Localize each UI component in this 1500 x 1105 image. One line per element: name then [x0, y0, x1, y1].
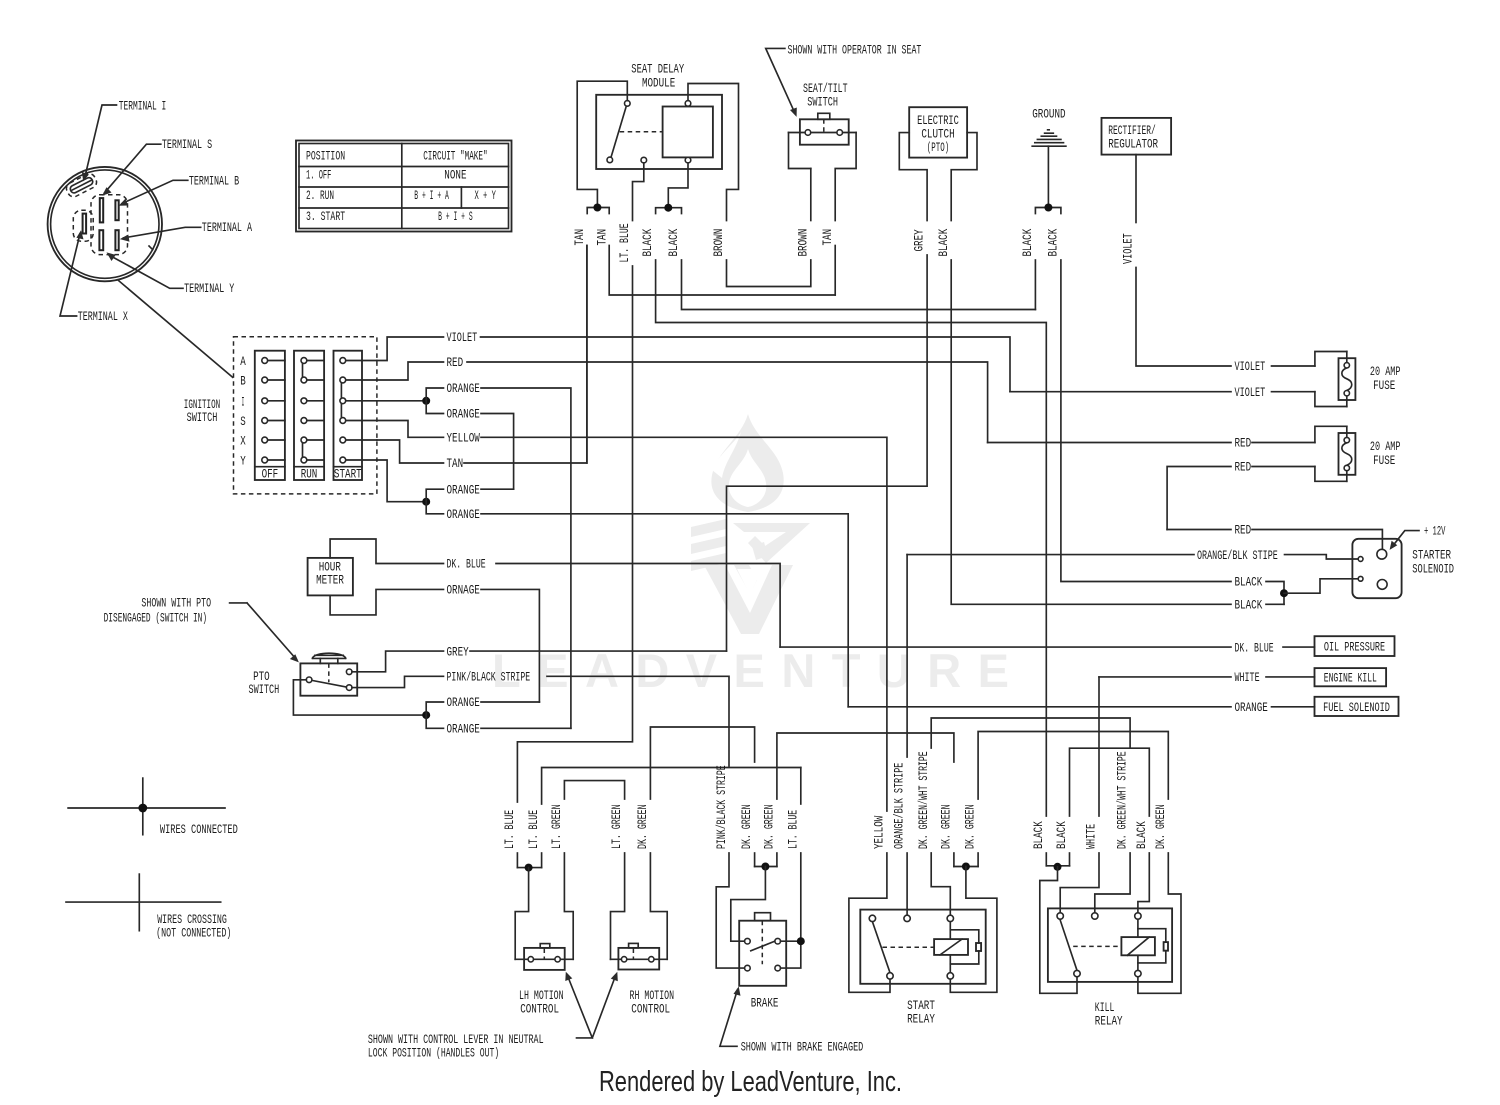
RH terminal right: [649, 957, 654, 962]
PTO button stem: [320, 658, 338, 663]
leader from connector to ignition switch box: [119, 281, 233, 378]
start relay terminal bottom-left: [887, 973, 893, 979]
svg-text:REGULATOR: REGULATOR: [1108, 137, 1158, 152]
start relay resistor loop: [950, 930, 979, 964]
wire LT. BLUE 2 upper segment to brake link: [542, 768, 801, 805]
svg-text:DK. BLUE: DK. BLUE: [447, 557, 486, 572]
module terminal bottom switch: [607, 157, 613, 163]
pin A: [115, 230, 118, 250]
svg-text:RUN: RUN: [301, 467, 318, 482]
junction dot brake LT. BLUE: [797, 937, 805, 945]
clutch left tab: [899, 133, 927, 221]
svg-text:ORNAGE: ORNAGE: [447, 583, 480, 598]
svg-text:SWITCH: SWITCH: [187, 410, 218, 425]
wire B to RED row: [377, 362, 444, 380]
wire VIOLET from bus to fuse bottom: [1010, 391, 1315, 393]
wire DK. GREEN/WHT STRIPE into relay: [931, 853, 950, 915]
wire ORANGE/BLK STIPE row: [907, 555, 1358, 559]
svg-text:GROUND: GROUND: [1032, 106, 1065, 121]
svg-text:RED: RED: [447, 355, 464, 370]
wire A to VIOLET row: [377, 337, 444, 361]
svg-text:VIOLET: VIOLET: [1235, 359, 1266, 374]
svg-text:B: B: [240, 374, 246, 389]
table row line 3: [299, 207, 509, 209]
wire VIOLET to fuse top: [1272, 365, 1315, 367]
svg-text:TERMINAL I: TERMINAL I: [119, 98, 167, 113]
brake dashed actuator: [761, 921, 763, 965]
brake switch body: [739, 921, 786, 986]
wire RED bus to right: [467, 362, 988, 443]
wire module LT. BLUE feed: [633, 163, 644, 221]
wire junction to solenoid: [1284, 579, 1358, 593]
svg-text:METER: METER: [316, 572, 344, 587]
svg-text:START: START: [334, 467, 362, 482]
wire BLACK 2 to ground bus: [682, 260, 1036, 310]
wire BLACK to junction: [1266, 603, 1284, 605]
start relay DK. GREEN pair bracket: [954, 866, 978, 868]
junction dot PTO orange pair: [422, 711, 430, 719]
wire TAN 1 down to TAN row: [586, 246, 588, 464]
ground stem: [1047, 146, 1049, 207]
RH right bracket to DK. GREEN: [650, 853, 667, 959]
junction dot brake DK. GREEN pair: [761, 863, 769, 871]
wire BLACK clutch to solenoid row: [951, 260, 1231, 604]
RH plunger: [629, 943, 639, 948]
start relay switch arm: [872, 922, 890, 973]
START column contact circles: [340, 358, 346, 364]
svg-text:LT. BLUE: LT. BLUE: [502, 810, 517, 849]
svg-text:TERMINAL B: TERMINAL B: [189, 174, 239, 189]
START column box: [334, 351, 363, 480]
PTO switch arm: [312, 680, 347, 687]
svg-text:DK. GREEN/WHT STRIPE: DK. GREEN/WHT STRIPE: [1115, 751, 1130, 849]
brake switch arm: [751, 941, 775, 951]
leader to PTO switch: [230, 603, 297, 660]
svg-text:BLACK: BLACK: [1235, 598, 1263, 613]
svg-text:BLACK: BLACK: [640, 229, 655, 257]
START connect bar B-I-S: [340, 382, 342, 420]
svg-text:GREY: GREY: [912, 229, 927, 251]
svg-text:VIOLET: VIOLET: [1235, 385, 1266, 400]
seat/tilt terminal left: [805, 130, 811, 136]
svg-text:WHITE: WHITE: [1235, 670, 1260, 685]
starter solenoid body: [1352, 539, 1401, 598]
svg-text:ENGINE KILL: ENGINE KILL: [1324, 671, 1377, 686]
svg-text:BLACK: BLACK: [1046, 229, 1061, 257]
svg-text:RED: RED: [1235, 460, 1252, 475]
wire DK. GREEN 2 lower segment: [754, 853, 756, 867]
pin B: [115, 200, 118, 220]
LH right bracket to LT. GREEN: [564, 853, 573, 959]
wire module BROWN feed: [688, 84, 739, 221]
svg-text:1. OFF: 1. OFF: [306, 168, 331, 183]
wire WHITE row: [1099, 676, 1315, 678]
svg-text:VIOLET: VIOLET: [447, 330, 478, 345]
row I contact line: [265, 400, 377, 402]
svg-text:DK. GREEN: DK. GREEN: [762, 804, 777, 849]
wire RED row to solenoid: [1167, 530, 1382, 550]
svg-text:20 AMP: 20 AMP: [1370, 364, 1401, 379]
module terminal coil bottom: [685, 157, 691, 163]
svg-text:GREY: GREY: [447, 644, 469, 659]
fuse 1 holder bracket: [1315, 352, 1347, 407]
wire LT. BLUE down to LH riser: [517, 266, 632, 802]
table inner border: [299, 144, 509, 229]
svg-text:PINK/BLACK STRIPE: PINK/BLACK STRIPE: [714, 765, 729, 849]
svg-text:SOLENOID: SOLENOID: [1412, 561, 1454, 576]
wire TAN 3 down to cross link: [834, 246, 836, 296]
svg-text:BLACK: BLACK: [1020, 229, 1035, 257]
wire LT. BLUE 3 upper segment: [800, 768, 802, 805]
wire BLACK 2 lower segment: [1069, 853, 1071, 866]
fuse 2 body: [1339, 433, 1356, 475]
hour meter box: [308, 558, 353, 596]
kill relay terminal bottom-left: [1074, 970, 1080, 976]
RUN connect bar A-B: [302, 362, 304, 379]
wire TAN row to seat module riser: [464, 246, 587, 464]
svg-text:VIOLET: VIOLET: [1121, 233, 1136, 264]
solenoid big terminal top: [1377, 549, 1387, 559]
wire junction down to ORANGE: [426, 502, 443, 514]
LH plunger: [540, 944, 550, 948]
svg-text:TERMINAL A: TERMINAL A: [202, 220, 252, 235]
svg-text:20 AMP: 20 AMP: [1370, 439, 1401, 454]
junction dot Y row: [422, 498, 430, 506]
wire PTO top right to GREY row: [352, 651, 444, 672]
LH dashed actuator: [543, 949, 545, 959]
table row line 2: [299, 186, 509, 188]
junction dot I row: [422, 397, 430, 405]
svg-text:SHOWN WITH BRAKE ENGAGED: SHOWN WITH BRAKE ENGAGED: [741, 1040, 864, 1055]
start relay terminal top-left: [869, 915, 875, 921]
notch on inner circle: [149, 246, 153, 250]
svg-text:TAN: TAN: [820, 229, 835, 246]
wire TAN 2 down to cross link: [609, 246, 835, 296]
leader to brake: [720, 990, 738, 1047]
table outer border: [296, 141, 512, 232]
wire DK. GREEN into outer bracket right: [1138, 853, 1181, 993]
PTO terminal top right: [346, 669, 352, 675]
clutch right tab: [951, 133, 977, 221]
wire WHITE into relay: [1060, 853, 1099, 913]
svg-text:DISENGAGED (SWITCH IN): DISENGAGED (SWITCH IN): [104, 611, 208, 626]
svg-text:SHOWN WITH OPERATOR IN SEAT: SHOWN WITH OPERATOR IN SEAT: [788, 43, 922, 58]
RUN connect bar X-Y: [302, 442, 304, 459]
wire BROWN 2 up to seat/tilt bracket: [810, 169, 812, 221]
wires connected symbol: [68, 807, 225, 809]
TAN pair bracket: [587, 208, 609, 214]
svg-text:DK. GREEN: DK. GREEN: [939, 804, 954, 849]
RUN column label line: [294, 466, 324, 468]
electric clutch box: [909, 107, 967, 157]
wire ORANGE to fuel solenoid riser: [481, 514, 848, 707]
key slot terminal I: [64, 172, 98, 199]
svg-text:CONTROL: CONTROL: [631, 1001, 670, 1016]
svg-text:BLACK: BLACK: [1134, 821, 1149, 849]
wire hour meter bottom to ORNAGE row: [330, 589, 443, 615]
svg-text:BLACK: BLACK: [1054, 821, 1069, 849]
kill relay BLACK pair bracket: [1046, 865, 1069, 867]
module terminal lt blue: [641, 157, 647, 163]
start relay coil vertical: [949, 922, 951, 973]
RH switch body: [618, 948, 659, 970]
svg-text:B + I + A: B + I + A: [414, 188, 449, 203]
fuel solenoid box: [1315, 697, 1399, 716]
row X contact line: [265, 439, 377, 441]
start relay resistor: [976, 943, 981, 951]
pin X: [83, 214, 87, 234]
wire pair junction into outer bracket right: [950, 867, 997, 993]
fuse 2 element leads: [1346, 426, 1348, 481]
svg-text:ORANGE: ORANGE: [1235, 700, 1268, 715]
start relay inner box: [860, 910, 985, 984]
wire DK. GREEN pair right upper segment to kill link: [978, 732, 1168, 800]
seat/tilt terminal right: [837, 130, 843, 136]
wire ORANGE to down jog: [481, 414, 514, 490]
svg-text:LT. GREEN: LT. GREEN: [609, 804, 624, 849]
wire ORANGE/BLK STRIPE into relay: [906, 853, 908, 915]
rectifier box: [1102, 118, 1172, 155]
PTO terminal left: [306, 677, 312, 683]
svg-text:TAN: TAN: [594, 229, 609, 246]
kill relay dashed link: [1073, 945, 1121, 947]
start relay terminal top-mid: [904, 915, 910, 921]
PTO dashed actuator line: [328, 663, 330, 682]
kill relay coil diagonal: [1127, 937, 1149, 955]
wire VIOLET down to fuse row: [1136, 268, 1231, 367]
wire ORANGE right segment to ignition jog: [481, 727, 571, 729]
svg-text:A: A: [240, 354, 246, 369]
svg-text:LT. BLUE: LT. BLUE: [526, 810, 541, 849]
row B contact line: [265, 379, 377, 381]
wire BLACK 1 lower segment: [1045, 853, 1047, 866]
brake terminal bottom-right: [775, 965, 781, 971]
wire YELLOW bus to start relay: [481, 437, 887, 811]
wire module BLACK feed: [668, 163, 688, 208]
kill relay switch arm: [1060, 919, 1077, 970]
svg-text:Y: Y: [240, 454, 246, 469]
svg-text:Rendered by LeadVenture, Inc.: Rendered by LeadVenture, Inc.: [599, 1066, 902, 1098]
svg-text:OIL PRESSURE: OIL PRESSURE: [1324, 640, 1385, 655]
seat/tilt bracket right: [835, 133, 856, 221]
wire DK. GREEN 3 lower segment: [776, 853, 778, 867]
solenoid small terminal top: [1358, 557, 1363, 562]
wire BLACK 1 to kill relay bus: [656, 260, 1047, 816]
wire LT. BLUE 2 lower segment: [541, 853, 543, 868]
wire PTO left terminal to orange pair junction: [293, 680, 426, 715]
ignition connector outer circle: [48, 167, 162, 281]
wire BLACK 3 into relay: [1138, 853, 1149, 913]
table run row split divider: [460, 187, 462, 208]
kill relay resistor loop: [1138, 929, 1166, 963]
junction dot start relay DK. GREEN pair: [962, 863, 970, 871]
svg-text:SEAT DELAY: SEAT DELAY: [631, 62, 684, 77]
svg-text:ORANGE: ORANGE: [447, 381, 480, 396]
ground symbol: [1032, 130, 1066, 146]
svg-text:LT. BLUE: LT. BLUE: [617, 223, 632, 262]
svg-text:DK. GREEN: DK. GREEN: [635, 804, 650, 849]
svg-text:ORANGE: ORANGE: [447, 695, 480, 710]
wire ORNAGE row to down jog: [481, 589, 539, 702]
start relay dashed link: [883, 946, 935, 948]
row Y contact line: [265, 459, 377, 461]
svg-text:CONTROL: CONTROL: [520, 1001, 559, 1016]
fuse 2 contact circles: [1344, 437, 1349, 442]
PTO switch body: [300, 663, 357, 695]
watermark MV monogram: [691, 519, 810, 634]
wire PTO bottom right to PINK/BLACK STRIPE row: [352, 676, 444, 687]
wire junction down into LH bracket: [515, 868, 528, 960]
wire junction down to ORANGE: [426, 401, 443, 414]
svg-text:S: S: [240, 414, 246, 429]
wire VIOLET bus to right: [481, 337, 1011, 392]
svg-text:BRAKE: BRAKE: [751, 995, 779, 1010]
module terminal coil top: [685, 101, 691, 107]
START column label line: [334, 466, 363, 468]
wire DK. GREEN 1 upper segment to brake link: [650, 727, 754, 799]
wire BROWN link to seat/tilt: [727, 260, 811, 287]
svg-text:DK. GREEN: DK. GREEN: [963, 804, 978, 849]
junction dot kill relay BLACK pair: [1054, 863, 1062, 871]
svg-text:SWITCH: SWITCH: [807, 94, 838, 109]
svg-text:TERMINAL X: TERMINAL X: [78, 309, 128, 324]
fuse 1 element leads: [1346, 352, 1348, 407]
svg-text:FUEL SOLENOID: FUEL SOLENOID: [1323, 700, 1390, 715]
brake terminal top-left: [745, 938, 751, 944]
LH terminal bar: [515, 958, 573, 960]
wire Y to lower orange pair: [377, 460, 426, 502]
svg-text:RELAY: RELAY: [907, 1012, 935, 1027]
svg-text:FUSE: FUSE: [1373, 378, 1395, 393]
svg-text:BLACK: BLACK: [936, 229, 951, 257]
BLACK pair bracket: [656, 208, 682, 214]
fuse 1 contact circles: [1344, 363, 1349, 368]
junction dot LT. BLUE pair: [525, 864, 533, 872]
leader fork to LH and RH: [567, 975, 616, 1038]
PTO button cap: [312, 653, 345, 658]
svg-text:ORANGE/BLK STIPE: ORANGE/BLK STIPE: [1197, 548, 1278, 563]
svg-text:BROWN: BROWN: [795, 229, 810, 257]
row A contact line: [265, 360, 377, 362]
kill relay coil box: [1121, 937, 1155, 955]
wires crossing symbol: [66, 901, 221, 903]
svg-text:ORANGE: ORANGE: [447, 507, 480, 522]
wire GREY down and across to PTO: [727, 255, 928, 651]
svg-text:SHOWN WITH PTO: SHOWN WITH PTO: [141, 596, 211, 611]
ignition switch dashed boundary: [234, 337, 377, 494]
seat/tilt bracket left: [789, 133, 811, 169]
brake terminal bottom-left: [745, 965, 751, 971]
svg-text:BLACK: BLACK: [1235, 575, 1263, 590]
svg-text:YELLOW: YELLOW: [872, 816, 887, 849]
module dashed link: [620, 131, 663, 133]
svg-text:RED: RED: [1235, 436, 1252, 451]
fuse 1 squiggle: [1342, 368, 1352, 391]
fuse 2 squiggle: [1342, 443, 1352, 466]
svg-text:LT. BLUE: LT. BLUE: [785, 810, 800, 849]
svg-text:ORANGE: ORANGE: [447, 722, 480, 737]
svg-text:DK. GREEN: DK. GREEN: [739, 804, 754, 849]
svg-text:WHITE: WHITE: [1084, 824, 1099, 849]
wire I to orange pair junction: [377, 400, 426, 402]
pin S: [100, 198, 103, 222]
leader to seat/tilt switch: [766, 48, 795, 113]
row S contact line: [265, 420, 377, 422]
wire ORANGE right segment: [481, 488, 514, 490]
wire ORANGE right segment to hour meter jog: [481, 701, 539, 703]
fuse 1 body: [1339, 358, 1356, 400]
module inner relay box: [663, 107, 713, 158]
module terminal top switch: [625, 101, 631, 107]
svg-text:TERMINAL Y: TERMINAL Y: [184, 281, 234, 296]
svg-text:+ 12V: + 12V: [1424, 524, 1446, 539]
svg-text:TAN: TAN: [447, 456, 464, 471]
LH switch body: [524, 948, 565, 970]
kill relay terminal top-mid: [1092, 913, 1098, 919]
LT. BLUE pair bracket: [517, 867, 541, 869]
table column divider: [401, 144, 403, 229]
ignition connector inner circle: [51, 170, 159, 278]
svg-text:ORANGE: ORANGE: [447, 482, 480, 497]
svg-text:X: X: [240, 434, 246, 449]
svg-text:WIRES CONNECTED: WIRES CONNECTED: [160, 822, 238, 837]
svg-text:ORANGE/BLK STRIPE: ORANGE/BLK STRIPE: [892, 762, 907, 849]
kill relay inner box: [1048, 908, 1172, 982]
svg-text:SWITCH: SWITCH: [249, 682, 280, 697]
wire DK. GREEN 3 upper segment to start relay link: [777, 733, 954, 799]
dashed outline around pin group: [91, 195, 128, 255]
wire BLACK ground right leg to solenoid row: [1061, 260, 1231, 582]
wire hour meter top to DK. BLUE row: [330, 539, 443, 564]
junction dot TAN pair: [593, 204, 601, 212]
kill relay terminal bottom-right: [1135, 970, 1141, 976]
wire YELLOW into outer bracket: [849, 853, 890, 992]
wire pair junction into outer bracket left: [1040, 867, 1077, 994]
svg-text:(PTO): (PTO): [927, 140, 949, 155]
svg-text:RELAY: RELAY: [1095, 1014, 1123, 1029]
svg-text:I: I: [242, 394, 245, 409]
wire junction up to ORANGE: [426, 702, 443, 715]
wire BLACK 2 upper segment bridge to coil side: [1070, 748, 1150, 816]
junction dot solenoid black: [1280, 589, 1288, 597]
wire GREY row to clutch riser: [470, 650, 727, 652]
start relay coil box: [934, 939, 968, 955]
kill relay terminal top-left: [1057, 913, 1063, 919]
wire junction down to ORANGE: [426, 715, 443, 728]
seat delay module box: [596, 95, 722, 169]
seat/tilt terminal bar: [789, 132, 857, 134]
wire DK. GREEN/WHT STRIPE link to kill relay: [931, 718, 1130, 748]
leader +12V arrow: [1392, 531, 1420, 548]
table row line 1: [299, 166, 509, 168]
wire ORANGE to down jog: [481, 388, 571, 728]
RH terminal bar: [611, 958, 668, 960]
wire BLACK to junction: [1266, 582, 1284, 605]
wire X to TAN row: [377, 440, 444, 463]
wire DK. BLUE row: [780, 646, 1314, 648]
seat/tilt plunger: [818, 113, 830, 119]
wire ORANGE row: [848, 706, 1314, 708]
wire DK. GREEN pair right lower segment: [977, 853, 979, 867]
watermark flame logo: [492, 414, 1009, 697]
kill relay resistor: [1164, 942, 1168, 951]
solenoid big terminal bottom: [1377, 580, 1387, 590]
wire DK. GREEN pair left lower segment: [953, 853, 955, 867]
start relay coil diagonal: [940, 939, 962, 955]
wire RED from fuse bottom to jog: [1167, 467, 1315, 530]
svg-text:MODULE: MODULE: [642, 76, 675, 91]
svg-text:ORANGE: ORANGE: [447, 407, 480, 422]
